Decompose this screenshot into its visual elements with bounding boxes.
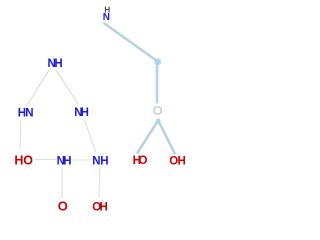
bond N row3 down to O	[61, 168, 63, 198]
svg-text:NH: NH	[57, 155, 72, 167]
bond N-top to HN lower-left	[28, 70, 49, 104]
bond N row3 to NH row3	[72, 159, 90, 161]
node chain apex bright	[156, 119, 161, 124]
node chain bend bright	[154, 58, 161, 65]
svg-text:HO: HO	[14, 153, 33, 167]
svg-text:NH: NH	[48, 58, 63, 70]
svg-text:NH: NH	[92, 156, 108, 168]
wire: pale blue highlighted chain	[105, 24, 175, 154]
bond N to chain bend	[105, 24, 158, 62]
bond NH row3 down to OH	[99, 168, 100, 198]
svg-text:OH: OH	[92, 201, 107, 213]
wire: faint ring bonds left molecule	[20, 70, 100, 198]
svg-text:NH: NH	[74, 107, 88, 119]
chemical structure diagram	[0, 0, 200, 219]
svg-text:O: O	[153, 103, 163, 118]
bond HN down to HO carbon	[20, 120, 21, 149]
bond fork to HO and OH	[138, 121, 175, 154]
bond N-top to NH lower-right	[56, 70, 78, 104]
svg-text:OH: OH	[169, 156, 185, 168]
bond HO to N row3	[36, 159, 55, 161]
svg-text:N: N	[103, 12, 110, 23]
bond NH lower-right down to NH row3	[84, 119, 96, 152]
svg-text:O: O	[58, 199, 68, 214]
svg-text:HN: HN	[18, 107, 34, 119]
bond vertical chain	[156, 61, 159, 103]
